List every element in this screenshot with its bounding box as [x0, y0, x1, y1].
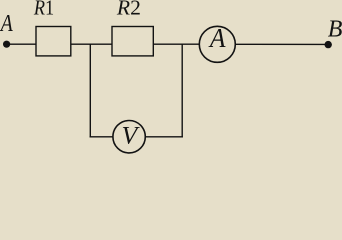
wire R2 to ammeter: [153, 43, 199, 45]
svg-text:R1: R1: [33, 0, 54, 20]
bottom wire left to voltmeter: [90, 136, 113, 138]
voltmeter U2 circle: [113, 121, 145, 153]
junction wire down left: [89, 44, 91, 137]
wire A to R1: [7, 43, 37, 45]
svg-text:B: B: [328, 17, 342, 43]
resistor R2: [112, 27, 153, 56]
wire ammeter to B: [235, 43, 328, 45]
svg-text:A: A: [0, 10, 14, 37]
junction wire down right: [181, 44, 183, 137]
wire R1 to R2: [71, 43, 112, 45]
bottom wire voltmeter to right: [145, 136, 183, 138]
resistor R1: [36, 27, 71, 56]
svg-text:A: A: [208, 23, 226, 54]
node A terminal dot: [3, 41, 10, 48]
node B terminal dot: [325, 41, 332, 48]
svg-text:R2: R2: [116, 0, 141, 20]
ammeter U1 circle: [199, 26, 235, 62]
